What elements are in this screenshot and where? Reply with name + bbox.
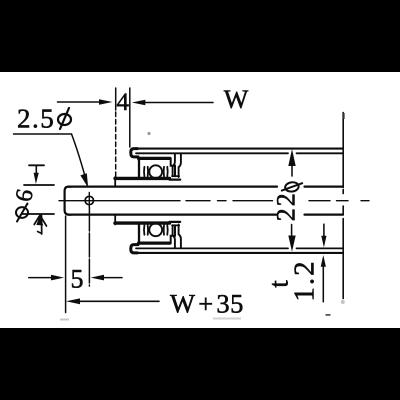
dimension W+35: arrow pointing left [66, 298, 159, 304]
dimension phi6: bottom arrow with tail [34, 215, 46, 234]
cotter pin hole 2.5phi in shaft [85, 193, 93, 208]
dimension 5: right arrow [91, 275, 122, 281]
label 2.5phi: leader line to hole [72, 134, 86, 179]
dimension 4: right extension line [129, 88, 131, 147]
roller tube bottom wall inner line [136, 247, 343, 249]
bearing inner ring left face (top) [114, 177, 116, 186]
bottom black scan band [0, 328, 400, 400]
end cap top section (Z-profile sheet) [173, 154, 175, 177]
hole extension line down to 5-dimension [88, 207, 90, 286]
dimension 22phi: bottom arrow (down) [288, 225, 295, 252]
shaft-end extension line (for 5 and W+35) [65, 216, 67, 313]
end cap bottom section (Z-profile sheet) [173, 225, 175, 248]
bearing housing top-right step [171, 158, 175, 176]
dimension 4: left arrow [58, 99, 113, 105]
bearing inner ring bottom edge [115, 221, 170, 224]
roller tube break line (right cut) [342, 113, 344, 299]
shaft left end cap (rounded) [65, 187, 71, 215]
end cap top foot [172, 175, 179, 177]
bearing inner ring top edge [115, 177, 170, 180]
dimension 5: left arrow [29, 275, 64, 281]
bearing housing bottom-right step [171, 225, 175, 243]
roller tube bottom wall outer line [133, 252, 343, 254]
dimension phi6: rotated phi symbol [16, 204, 28, 222]
dimension W: arrow pointing left [132, 100, 213, 106]
roller tube bottom-left hem hook [131, 245, 138, 253]
bearing ball top [149, 165, 162, 178]
svg-text:22: 22 [272, 191, 301, 221]
faint smudge below break line [341, 300, 345, 304]
roller tube top-left hem hook [131, 149, 138, 157]
bearing ball bottom [149, 223, 162, 236]
bearing housing bottom edge [139, 242, 171, 245]
bearing housing top-left edge [138, 158, 140, 178]
scan speck right of W [343, 113, 345, 119]
scan speck bottom right [326, 314, 331, 316]
dimension 4: left extension line (solid then dashed down to bearing inner ring) [115, 88, 117, 177]
label 2.5phi: phi symbol [58, 108, 71, 129]
bearing bottom shield lines [144, 225, 168, 235]
top black scan band [0, 0, 400, 72]
faint scan speck near bearing [147, 132, 150, 135]
bearing housing bottom-left edge [138, 223, 140, 243]
svg-text:4: 4 [117, 89, 130, 116]
svg-text:W: W [224, 85, 249, 114]
roller tube top wall inner line [136, 152, 343, 154]
dimension 22phi: rotated phi symbol [282, 181, 302, 192]
dimension 22phi: top arrow (up) [288, 149, 295, 176]
end cap bottom foot [172, 224, 179, 226]
svg-text:1.2: 1.2 [289, 259, 321, 301]
shaft/roller centerline (dash-dot) [59, 200, 369, 202]
label 2.5phi: leader arrowhead [80, 173, 88, 188]
bearing inner ring left face (bottom) [114, 216, 116, 225]
label 2.5phi: underline [14, 133, 72, 135]
dimension 1.2: up arrow below tube wall [321, 255, 326, 302]
svg-text:W + 35: W + 35 [170, 289, 244, 319]
svg-text:2.5: 2.5 [17, 104, 55, 134]
bearing housing top edge [139, 157, 171, 160]
dimension phi6: top arrow with tail bar [29, 165, 44, 184]
shaft bottom edge [68, 214, 343, 216]
faint smudges near bottom band edge [60, 319, 69, 321]
roller tube top wall outer line [133, 148, 343, 150]
svg-text:5: 5 [71, 265, 84, 294]
dimension 1.2: down arrow above tube wall [321, 224, 326, 247]
bearing top shield lines [144, 167, 168, 177]
shaft top edge [68, 186, 343, 188]
dimension phi6: bottom reference line (shaft bottom extended) [22, 213, 54, 215]
dimension phi6: top reference line (shaft top extended) [24, 184, 54, 186]
